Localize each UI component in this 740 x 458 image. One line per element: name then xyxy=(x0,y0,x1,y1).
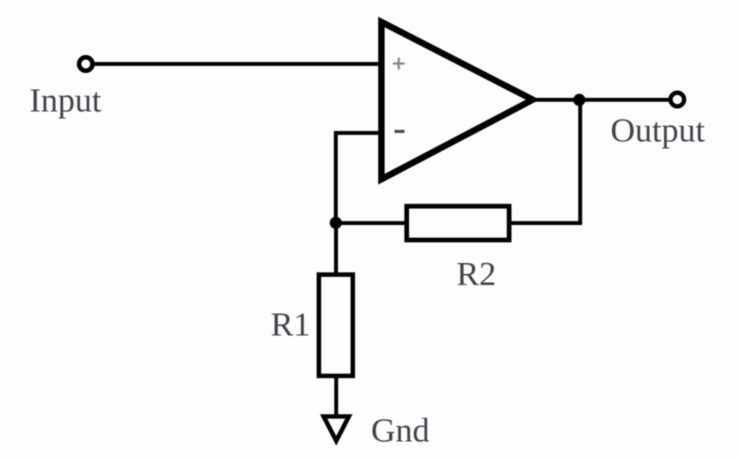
resistor R1 xyxy=(319,275,353,376)
wire: corner to R2 right terminal xyxy=(509,221,582,225)
svg-text:Gnd: Gnd xyxy=(371,413,430,450)
output terminal xyxy=(671,93,685,107)
wire: feedback node down to R1 xyxy=(334,223,338,275)
wire: R1 bottom to ground xyxy=(334,376,338,416)
svg-text:Input: Input xyxy=(30,83,102,120)
wire: corner to op-amp - input xyxy=(336,131,382,135)
op-amp + pin label xyxy=(393,58,405,70)
input terminal xyxy=(79,57,92,70)
ground xyxy=(324,416,349,440)
wire: op-amp output to output terminal xyxy=(535,98,670,102)
svg-text:R2: R2 xyxy=(457,256,497,293)
wire: feedback node up xyxy=(334,131,338,225)
node: feedback junction xyxy=(330,217,342,229)
svg-text:R1: R1 xyxy=(271,306,311,343)
wire: output junction down xyxy=(578,100,582,223)
wire: input terminal to op-amp + input xyxy=(93,62,382,66)
node: output junction xyxy=(573,94,585,106)
op-amp - pin label xyxy=(395,130,405,133)
op-amp U1 xyxy=(381,22,532,179)
resistor R2 xyxy=(407,206,509,240)
wire: R2 left terminal to feedback node xyxy=(336,221,407,225)
svg-text:Output: Output xyxy=(611,113,706,150)
